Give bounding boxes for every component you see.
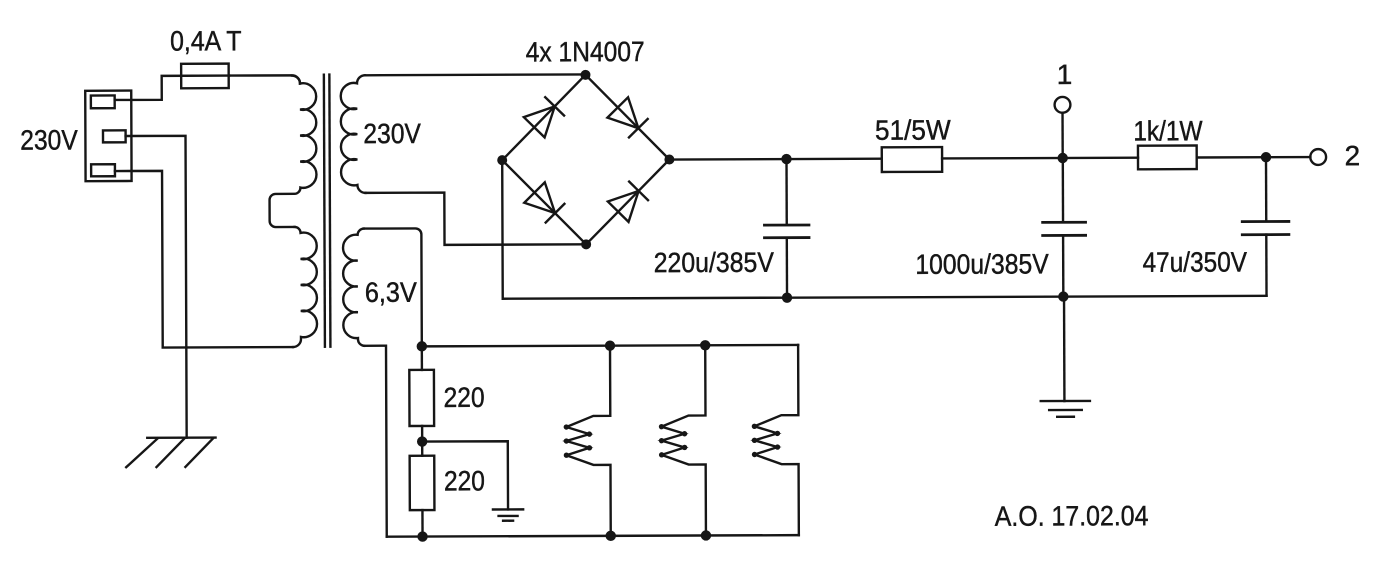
filament V3 contact dot 1 <box>752 424 757 429</box>
filament V1 contact dot 5 <box>564 453 569 458</box>
filament V1 contact dot 1 <box>564 424 569 429</box>
tube heater filament V3 bottom lead <box>755 454 799 535</box>
filament V1 contact dot 3 <box>564 438 569 443</box>
transformer primary winding lower half <box>293 227 318 347</box>
wire: fuse to transformer primary top <box>229 75 300 83</box>
filament V2 contact dot 3 <box>659 438 664 443</box>
terminal 1 circle <box>1055 97 1071 113</box>
tube heater filament V1 top lead <box>566 346 610 427</box>
svg-text:1k/1W: 1k/1W <box>1133 115 1203 146</box>
filament V2 contact dot 4 <box>682 445 687 450</box>
capacitor C3 47u/350V top lead <box>1265 157 1268 220</box>
wire: 0V bottom rail <box>787 296 1266 298</box>
tube heater filament V2 zigzag <box>662 427 685 455</box>
wire: 6,3V bottom terminal step down to heater bottom bus <box>364 346 387 537</box>
capacitor C1 plates <box>763 225 810 238</box>
heater ground symbol line 2 <box>499 515 518 517</box>
terminal 1 lead <box>1061 113 1064 158</box>
svg-text:2: 2 <box>1345 140 1361 171</box>
svg-text:51/5W: 51/5W <box>875 114 951 145</box>
earth ground hatch 2 <box>156 438 184 467</box>
filament V3 contact dot 3 <box>752 438 757 443</box>
wire: R1 to node 1 junction <box>942 157 1138 160</box>
node dot bridge top <box>580 70 590 80</box>
node dot bridge left <box>497 155 507 165</box>
earth ground symbol (hatched) bar <box>147 436 215 439</box>
wire: bus to R3 <box>421 346 423 369</box>
wire: 230V secondary bottom to bridge bottom node <box>365 192 586 245</box>
wire: center tap to heater ground <box>422 441 508 510</box>
tube heater filament V2 bottom lead <box>662 455 706 536</box>
wire: R3 to center tap node <box>421 426 423 442</box>
node dot bridge bottom <box>581 239 591 249</box>
wire: heater top bus <box>422 345 798 346</box>
filament V3 contact dot 2 <box>775 431 780 436</box>
diode D4 (bridge bottom to right) <box>608 181 649 222</box>
node dot C2 bottom / ground junction <box>1058 291 1068 301</box>
svg-text:1000u/385V: 1000u/385V <box>915 248 1049 280</box>
diode D3 (bridge left to bottom) <box>524 182 565 223</box>
node dot C3 top / terminal 2 junction <box>1261 152 1271 162</box>
wire: center tap to R4 <box>421 442 423 456</box>
ground symbol (signal ground) line 1 <box>1041 400 1090 403</box>
svg-text:230V: 230V <box>20 124 78 155</box>
ground symbol line 2 <box>1049 409 1082 412</box>
svg-text:6,3V: 6,3V <box>365 277 417 308</box>
svg-text:0,4A T: 0,4A T <box>170 25 242 56</box>
tube heater filament V1 zigzag <box>566 427 589 455</box>
node dot humdinger center tap <box>417 436 427 446</box>
svg-text:4x 1N4007: 4x 1N4007 <box>526 36 645 67</box>
svg-text:220u/385V: 220u/385V <box>654 247 775 278</box>
node dot 6,3V / R3 top <box>417 341 427 351</box>
svg-text:220: 220 <box>444 465 485 496</box>
filament V1 contact dot 2 <box>587 431 592 436</box>
heater ground symbol line 3 <box>503 520 513 522</box>
wire: R2 to terminal 2 <box>1197 156 1311 159</box>
node dot C1 bottom <box>782 292 792 302</box>
filament V2 contact dot 5 <box>659 452 664 457</box>
wire: heater bottom bus <box>387 535 799 537</box>
diode D1 (bridge left to top) <box>524 96 565 137</box>
wire: B+ top rail bridge to R1 <box>669 158 881 161</box>
node dot heater V2 bottom bus <box>701 530 711 540</box>
transformer 230V secondary winding <box>341 75 366 193</box>
filament V3 contact dot 4 <box>775 444 780 449</box>
earth ground hatch 1 <box>126 438 158 467</box>
filament V1 contact dot 4 <box>587 445 592 450</box>
connector pin PE <box>103 130 126 142</box>
tube heater filament V3 top lead <box>754 345 798 426</box>
wire: bridge left node down to 0V rail <box>502 159 787 299</box>
svg-text:1: 1 <box>1057 59 1073 90</box>
connector pin N <box>91 164 115 176</box>
tube heater filament V1 bottom lead <box>566 455 610 536</box>
wire: 230V secondary top to bridge top node <box>365 73 585 76</box>
mains connector X1 outline <box>85 91 131 182</box>
capacitor C1 bottom lead <box>786 238 789 298</box>
filament V2 contact dot 1 <box>659 424 664 429</box>
svg-text:220: 220 <box>444 382 485 413</box>
capacitor C3 plates <box>1241 221 1290 234</box>
node dot heater V1 bottom bus <box>606 531 616 541</box>
capacitor C2 bottom lead <box>1062 235 1065 296</box>
bridge rectifier diamond edges <box>502 75 670 245</box>
node dot node 1 junction <box>1057 153 1067 163</box>
fuse F1 body <box>181 64 229 89</box>
resistor R4 220 body <box>410 456 435 510</box>
resistor R3 220 body <box>409 370 434 426</box>
svg-text:A.O. 17.02.04: A.O. 17.02.04 <box>995 500 1149 532</box>
node dot heater V2 top bus <box>700 340 710 350</box>
node dot heater V1 top bus <box>605 340 615 350</box>
wire: R4 to bottom bus <box>421 510 424 536</box>
tube heater filament V2 top lead <box>661 345 705 426</box>
earth ground hatch 3 <box>185 438 213 467</box>
wire: pin L to fuse <box>115 76 230 100</box>
svg-text:47u/350V: 47u/350V <box>1143 246 1248 277</box>
filament V2 contact dot 2 <box>682 431 687 436</box>
transformer 6,3V heater winding <box>343 229 364 346</box>
filament V3 contact dot 5 <box>752 452 757 457</box>
node dot bridge right <box>664 154 674 164</box>
wire: pin N down and to transformer primary bottom <box>115 170 293 347</box>
wire: 6,3V top terminal to heater top bus <box>364 228 422 346</box>
capacitor C3 bottom lead <box>1265 235 1268 296</box>
ground symbol line 3 <box>1057 416 1074 418</box>
capacitor C1 220u/385V top lead <box>785 159 788 224</box>
tube heater filament V3 zigzag <box>754 426 777 454</box>
transformer TR1 core line 1 <box>324 73 325 347</box>
capacitor C2 plates <box>1041 222 1087 235</box>
capacitor C2 1000u/385V top lead <box>1062 158 1065 221</box>
node dot R4 bottom <box>417 531 427 541</box>
wire: 0V rail to chassis ground <box>1063 297 1066 401</box>
transformer primary winding upper half <box>269 75 317 227</box>
heater ground symbol line 1 <box>493 508 523 511</box>
terminal 2 circle <box>1310 149 1326 165</box>
resistor R2 1k/1W body <box>1138 145 1197 169</box>
wire: pin PE down to earth ground <box>126 136 187 438</box>
connector pin L <box>91 95 115 108</box>
diode D2 (bridge top to right) <box>607 97 648 138</box>
svg-text:230V: 230V <box>363 118 421 149</box>
transformer TR1 core line 2 <box>329 73 330 347</box>
resistor R1 51/5W body <box>882 147 942 172</box>
node dot C1 top <box>781 154 791 164</box>
